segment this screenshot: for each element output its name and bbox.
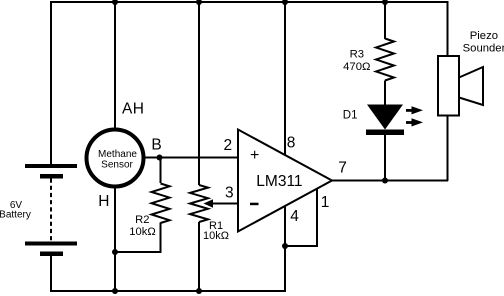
pin label 2 — [224, 137, 233, 154]
wire R1 wiper to op-amp pin 3 with arrowhead — [204, 199, 239, 208]
wire battery bottom to ground rail — [50, 256, 52, 292]
resistor R3 470 — [376, 39, 394, 107]
wire pin 8 to top rail — [284, 2, 286, 155]
wire pin 4 to ground rail — [284, 206, 286, 292]
wire R1 top to rail — [198, 2, 200, 185]
pin label 7 — [338, 160, 347, 177]
svg-text:4: 4 — [290, 208, 299, 225]
LED D1 — [366, 105, 404, 182]
svg-text:Sensor: Sensor — [101, 160, 133, 171]
wire sensor bottom to ground rail — [114, 185, 116, 292]
junction H line / R2 return — [112, 249, 118, 255]
wire op-amp output pin 7 to piezo — [330, 180, 448, 182]
svg-text:R3: R3 — [350, 49, 364, 61]
wire bottom ground rail — [50, 290, 286, 292]
svg-text:Battery: Battery — [0, 210, 31, 221]
junction LED branch / output wire — [382, 178, 388, 184]
label D1 — [343, 110, 358, 122]
svg-text:Methane: Methane — [98, 149, 137, 160]
svg-text:3: 3 — [225, 184, 234, 201]
wire R2 bottom to sensor H line — [115, 251, 162, 253]
resistor R2 10k — [152, 158, 170, 253]
junction H line / ground rail — [112, 288, 118, 294]
wire top rail down to piezo — [447, 1, 449, 56]
wire piezo bottom to output wire — [447, 116, 449, 182]
pin label 3 — [225, 184, 234, 201]
methane sensor — [87, 130, 144, 187]
label R2 10kOhm — [129, 214, 155, 238]
junction top rail / sensor — [112, 0, 118, 5]
svg-text:A: A — [122, 101, 133, 118]
LED light arrow lower — [406, 118, 423, 126]
svg-text:R2: R2 — [135, 214, 149, 226]
label H — [98, 193, 109, 210]
label A H — [122, 101, 144, 118]
svg-text:+: + — [250, 147, 259, 164]
wire top supply rail — [50, 1, 448, 3]
svg-text:H: H — [98, 193, 109, 210]
pin label 8 — [287, 135, 296, 152]
wire pin 1 down and over to pin 4 — [285, 189, 317, 246]
wire R3 top to rail — [384, 2, 386, 39]
svg-text:8: 8 — [287, 135, 296, 152]
wire left vertical from top rail to battery — [50, 1, 52, 165]
junction R1 / ground rail — [196, 288, 202, 294]
pin label 1 — [321, 194, 330, 211]
svg-text:LM311: LM311 — [256, 173, 302, 190]
junction pin1 return / pin 4 wire — [282, 243, 288, 249]
potentiometer R1 10k — [190, 185, 208, 292]
wire node B to op-amp pin 2 — [143, 157, 238, 159]
svg-text:D1: D1 — [343, 110, 358, 122]
svg-text:10kΩ: 10kΩ — [129, 226, 155, 238]
junction top rail / pin 8 — [282, 0, 288, 5]
label B — [151, 136, 161, 153]
svg-text:1: 1 — [321, 194, 330, 211]
LED light arrow upper — [406, 106, 423, 114]
junction top rail / R3 — [382, 0, 388, 5]
label 6V Battery — [0, 200, 31, 221]
svg-text:Piezo: Piezo — [470, 30, 498, 42]
label R1 10kOhm — [203, 220, 229, 242]
pin label 4 — [290, 208, 299, 225]
label Piezo Sounder — [463, 30, 504, 55]
op-amp U1 LM311 — [238, 130, 332, 232]
svg-text:H: H — [133, 101, 144, 118]
piezo sounder LS1 — [438, 56, 483, 116]
svg-text:B: B — [151, 136, 161, 153]
label R3 470Ohm — [343, 49, 370, 73]
junction node B / R2 — [157, 155, 163, 161]
svg-text:Sounder: Sounder — [463, 43, 504, 55]
wire sensor top to rail — [114, 2, 116, 132]
svg-text:470Ω: 470Ω — [343, 61, 370, 73]
svg-text:2: 2 — [224, 137, 233, 154]
battery B1 6V — [25, 164, 77, 256]
junction top rail / R1 — [196, 0, 202, 5]
svg-text:7: 7 — [338, 160, 347, 177]
svg-text:10kΩ: 10kΩ — [203, 230, 229, 242]
